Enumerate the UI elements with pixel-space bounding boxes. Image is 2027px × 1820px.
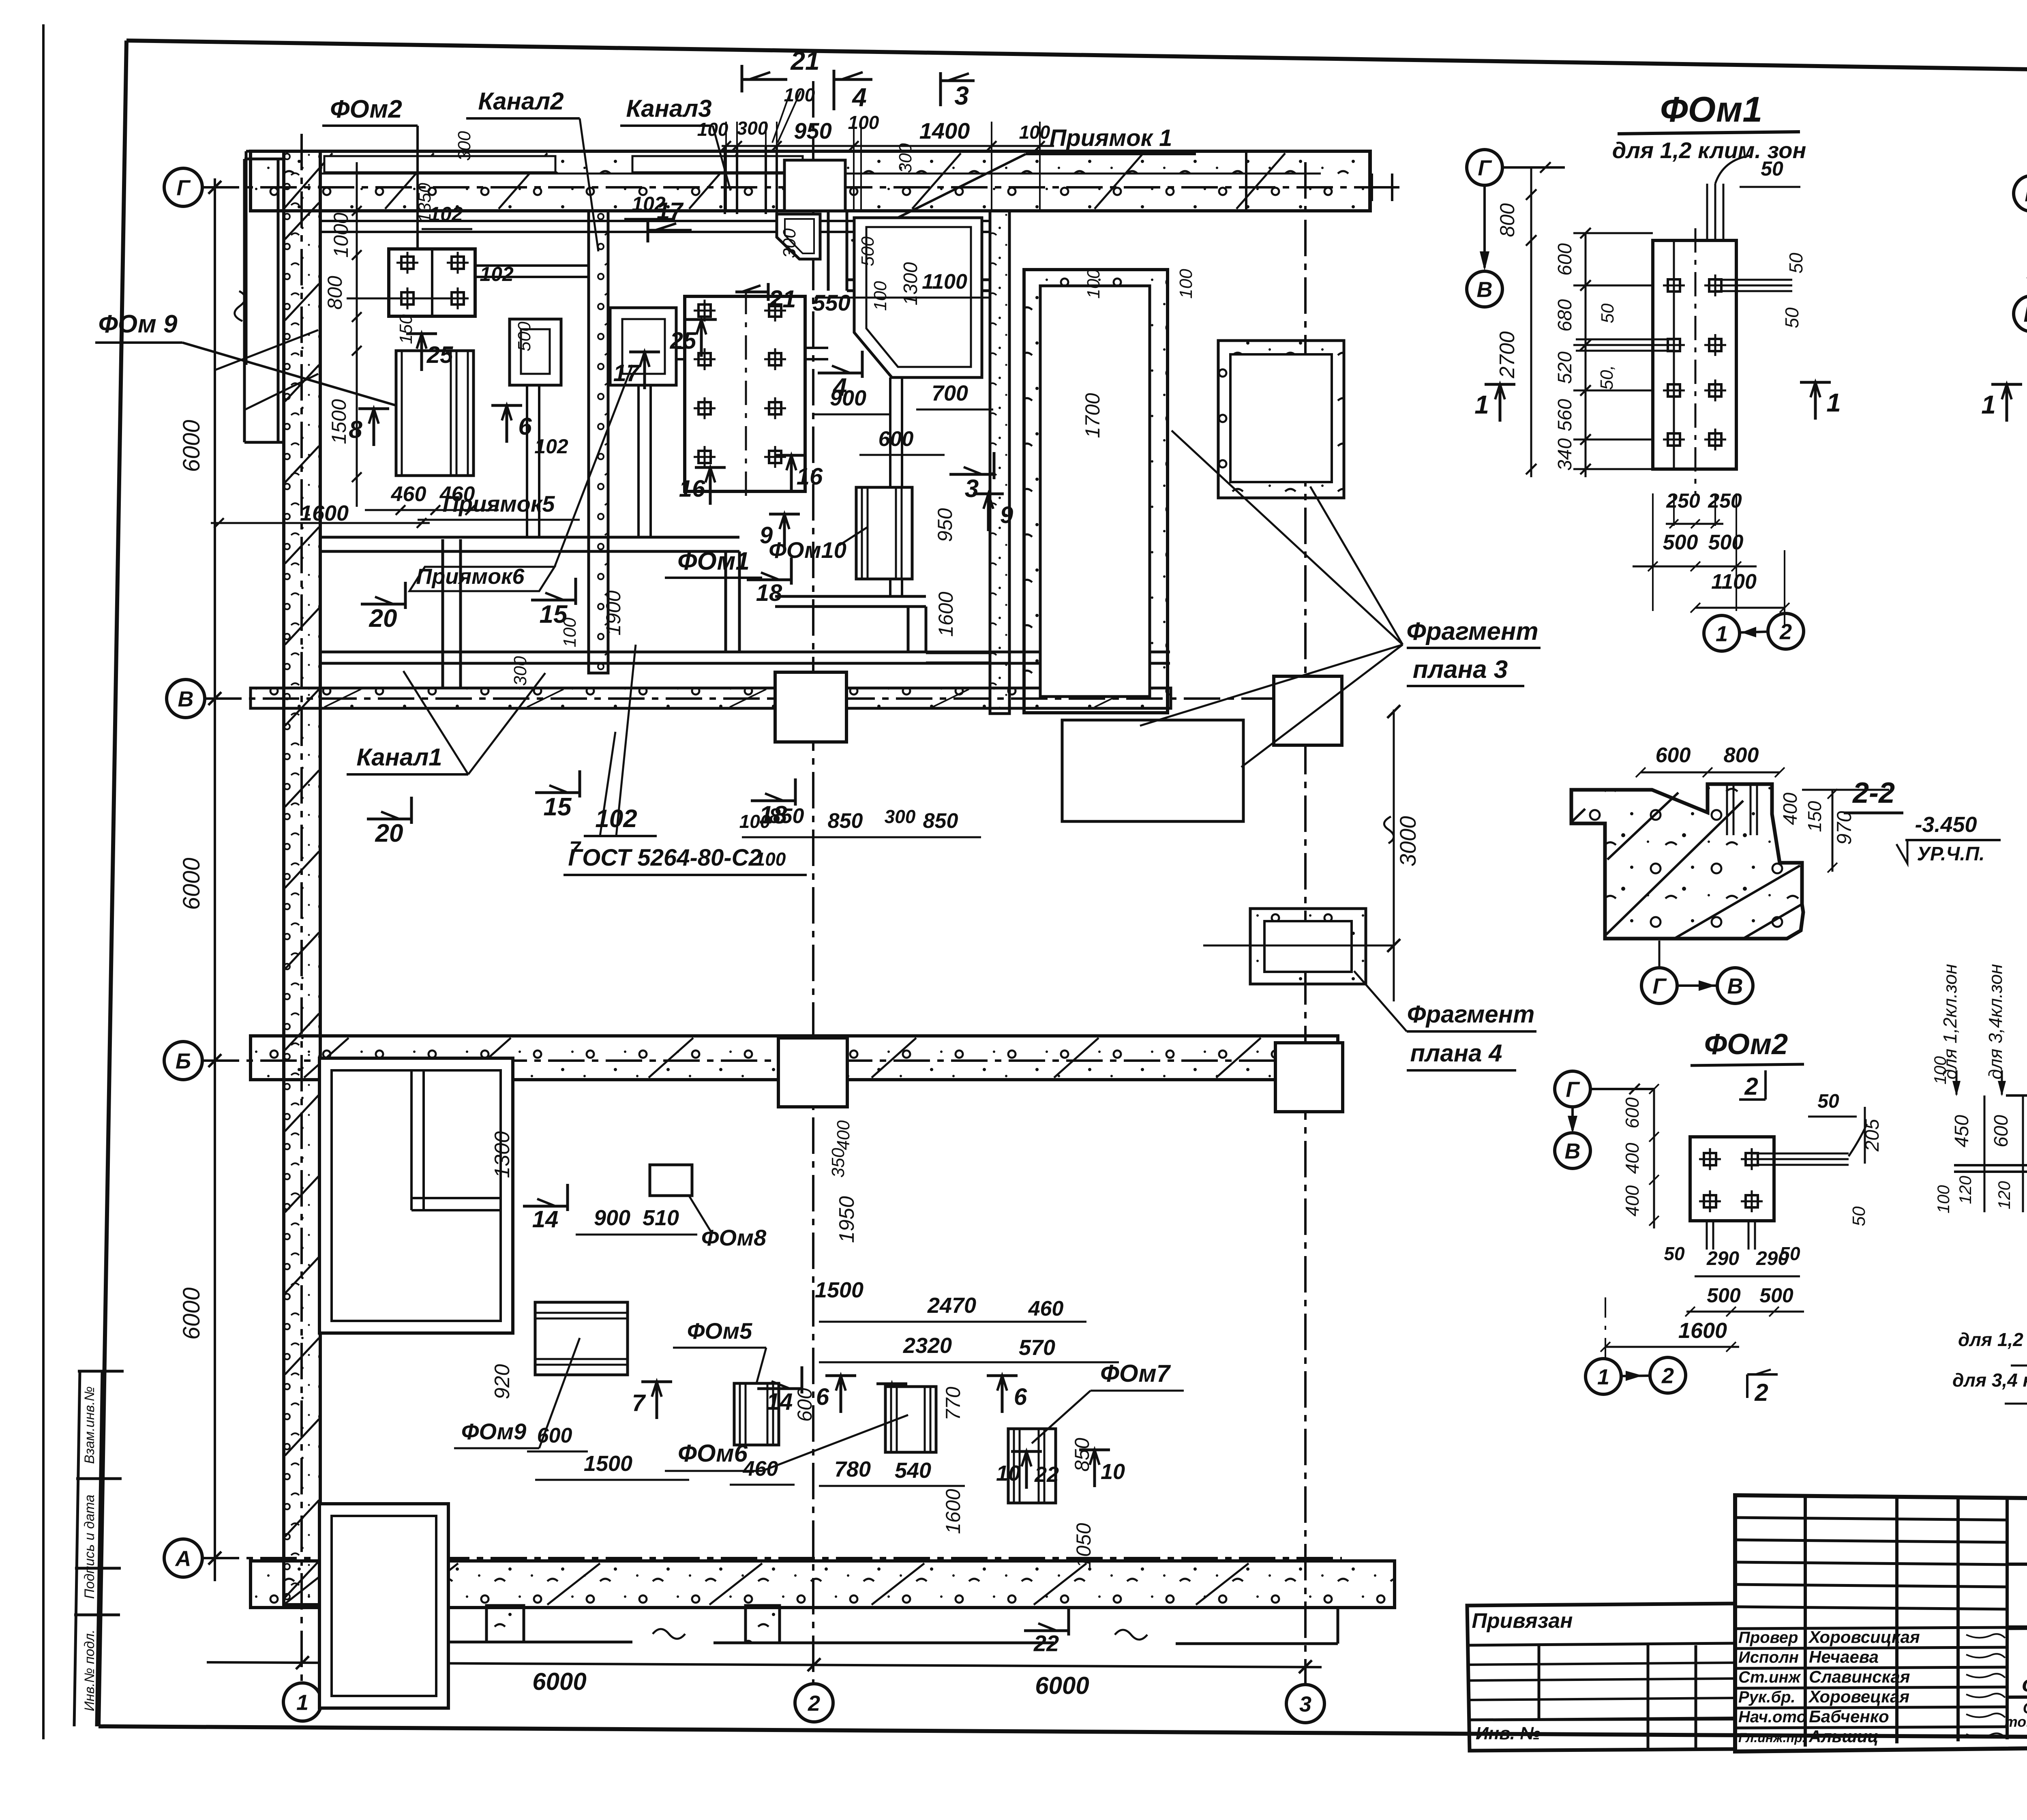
svg-text:плана 3: плана 3 xyxy=(1413,656,1508,684)
svg-text:850: 850 xyxy=(1071,1438,1093,1472)
svg-text:100: 100 xyxy=(1084,269,1103,299)
Приямок5 pit xyxy=(510,319,561,385)
svg-text:600: 600 xyxy=(1991,1115,2012,1147)
wall along axis Б (concrete band) xyxy=(251,1036,1338,1080)
svg-text:300: 300 xyxy=(780,228,799,258)
ФОм8 small rect xyxy=(650,1165,692,1196)
svg-text:Фрагмент: Фрагмент xyxy=(1406,617,1538,645)
ФОм7 bar xyxy=(1008,1429,1056,1503)
svg-text:600: 600 xyxy=(1656,744,1691,767)
svg-text:400: 400 xyxy=(1780,793,1801,825)
detail2 axis circles xyxy=(2014,176,2027,211)
svg-text:А: А xyxy=(175,1546,191,1571)
svg-text:22: 22 xyxy=(1034,1462,1059,1487)
svg-text:16: 16 xyxy=(797,463,823,490)
axis line Б xyxy=(203,1059,1342,1062)
axis line 3 xyxy=(1304,162,1307,1685)
svg-text:6000: 6000 xyxy=(1035,1672,1089,1699)
bottom dimension line 6000 chain xyxy=(207,1662,1322,1667)
svg-text:460: 460 xyxy=(439,482,475,506)
svg-text:600: 600 xyxy=(879,427,914,451)
svg-text:1600: 1600 xyxy=(1678,1318,1727,1343)
svg-text:1: 1 xyxy=(1474,390,1489,419)
svg-text:1000: 1000 xyxy=(330,212,352,257)
markers inside plan xyxy=(349,409,389,446)
svg-text:510: 510 xyxy=(643,1206,679,1230)
svg-text:1: 1 xyxy=(1826,388,1841,417)
svg-text:2: 2 xyxy=(808,1691,820,1715)
jog walls near 2280 xyxy=(775,595,926,598)
svg-text:ФОм1: ФОм1 xyxy=(1660,89,1762,129)
axis line 1 xyxy=(300,134,303,1683)
svg-text:6: 6 xyxy=(518,413,532,440)
svg-text:3000: 3000 xyxy=(1395,816,1421,867)
ФОм2 block xyxy=(389,249,475,316)
svg-text:100: 100 xyxy=(1019,122,1050,143)
svg-text:В: В xyxy=(1565,1139,1581,1163)
marker 4 inner xyxy=(818,351,862,401)
room below В left of axis3 xyxy=(1062,720,1243,821)
svg-text:300: 300 xyxy=(885,806,916,827)
svg-text:50: 50 xyxy=(1761,157,1783,180)
svg-text:570: 570 xyxy=(1019,1336,1055,1360)
pier bump 1 xyxy=(486,1606,524,1642)
svg-text:Нач.ото: Нач.ото xyxy=(1738,1708,1806,1726)
axis circle Г xyxy=(164,168,202,206)
wall Г inner beam line xyxy=(320,173,1321,175)
svg-text:1600: 1600 xyxy=(300,501,349,525)
svg-text:100: 100 xyxy=(755,849,786,870)
svg-text:50: 50 xyxy=(1817,1091,1839,1112)
pier axis2/В xyxy=(775,672,846,742)
svg-text:102: 102 xyxy=(534,435,568,458)
svg-text:600: 600 xyxy=(1554,243,1576,276)
dim row top (950/1400) xyxy=(722,145,1054,147)
svg-text:плана 4: плана 4 xyxy=(1410,1040,1502,1067)
svg-text:120: 120 xyxy=(1956,1175,1975,1204)
svg-text:1500: 1500 xyxy=(328,399,350,444)
svg-text:50: 50 xyxy=(1664,1243,1685,1264)
svg-text:6000: 6000 xyxy=(532,1668,586,1695)
channel pair pitB to east wall xyxy=(676,347,828,349)
rooms lower left xyxy=(319,1058,513,1333)
svg-text:800: 800 xyxy=(1496,203,1519,237)
fragment3 leader fan xyxy=(1172,431,1403,645)
svg-text:6: 6 xyxy=(1014,1384,1027,1410)
Приямок1 big pit xyxy=(1024,270,1168,713)
svg-text:300: 300 xyxy=(510,656,530,686)
svg-text:8: 8 xyxy=(349,416,362,443)
axis circle 1 xyxy=(283,1683,321,1721)
frame top border xyxy=(126,41,2027,76)
svg-text:17: 17 xyxy=(613,360,641,386)
svg-text:25: 25 xyxy=(670,328,696,354)
ФОм2 anchor wires down xyxy=(1706,1221,1708,1250)
svg-text:2470: 2470 xyxy=(927,1293,976,1318)
svg-text:1100: 1100 xyxy=(1711,570,1757,594)
svg-text:900: 900 xyxy=(594,1206,630,1230)
svg-text:ФОм2: ФОм2 xyxy=(330,95,402,123)
svg-text:500: 500 xyxy=(1663,531,1698,554)
svg-text:10: 10 xyxy=(996,1461,1020,1486)
svg-text:1: 1 xyxy=(296,1690,309,1715)
svg-text:500: 500 xyxy=(514,322,534,352)
markers 21 4 3 top xyxy=(742,65,787,92)
svg-text:100: 100 xyxy=(1931,1056,1950,1085)
svg-text:250: 250 xyxy=(1708,489,1742,512)
axis circle 3 xyxy=(1286,1685,1324,1723)
svg-text:Инв. №: Инв. № xyxy=(1476,1724,1541,1743)
svg-text:Канал1: Канал1 xyxy=(356,744,442,771)
svg-text:920: 920 xyxy=(491,1364,514,1400)
svg-text:14: 14 xyxy=(532,1206,559,1233)
personnel rows xyxy=(1735,1627,2007,1629)
room wall pair y1330 xyxy=(320,536,739,539)
ФОм9 upper bar xyxy=(396,351,474,476)
svg-text:290: 290 xyxy=(1706,1248,1739,1269)
svg-text:1: 1 xyxy=(1716,622,1728,646)
vertical dim ladder x=853 xyxy=(356,162,358,507)
ФОм2 anchor wires right xyxy=(1752,1153,1849,1155)
stamp column left edge xyxy=(74,1371,80,1726)
svg-text:1400: 1400 xyxy=(919,118,970,144)
lower foundation ledge under А wall xyxy=(345,1641,632,1644)
pit on axis 3 (fragment plan 3 target) xyxy=(1218,341,1344,498)
svg-text:550: 550 xyxy=(812,290,850,315)
svg-text:2: 2 xyxy=(1744,1073,1758,1100)
wall along axis Г (top, concrete) xyxy=(251,151,1370,211)
svg-text:290: 290 xyxy=(1756,1248,1789,1269)
svg-text:1950: 1950 xyxy=(835,1196,859,1243)
left dimension line 6000 chain xyxy=(214,178,216,1581)
ФОм2 plan rect xyxy=(1690,1137,1774,1221)
svg-text:Исполн: Исполн xyxy=(1738,1649,1799,1666)
frame bottom border xyxy=(99,1726,2027,1739)
svg-text:250: 250 xyxy=(1666,489,1700,512)
svg-text:770: 770 xyxy=(942,1387,964,1421)
axis line В xyxy=(205,697,1342,700)
2-2 pedestal bolts xyxy=(1727,784,1757,835)
svg-text:100: 100 xyxy=(848,112,879,133)
svg-text:100: 100 xyxy=(697,119,729,140)
svg-text:120: 120 xyxy=(1995,1181,2014,1209)
svg-text:Гл.инж.пр.: Гл.инж.пр. xyxy=(1738,1730,1806,1745)
svg-text:3: 3 xyxy=(965,475,979,503)
axis circle А xyxy=(164,1539,202,1577)
svg-text:14: 14 xyxy=(767,1389,793,1415)
svg-text:400: 400 xyxy=(834,1120,853,1150)
svg-text:600: 600 xyxy=(537,1424,572,1447)
svg-text:450: 450 xyxy=(1951,1115,1973,1147)
wall along axis А (bottom, concrete) xyxy=(251,1561,1395,1608)
svg-text:Хоровсицкая: Хоровсицкая xyxy=(1808,1627,1920,1646)
3-3 duct channel xyxy=(2006,1094,2027,1097)
svg-text:2: 2 xyxy=(1754,1379,1768,1406)
svg-text:2: 2 xyxy=(1779,620,1792,644)
svg-text:6000: 6000 xyxy=(178,857,205,910)
svg-text:Г: Г xyxy=(1652,974,1667,998)
svg-text:1100: 1100 xyxy=(922,270,967,294)
axis line А xyxy=(203,1557,1342,1559)
svg-text:Г: Г xyxy=(1478,156,1492,180)
paper edge line left xyxy=(42,24,45,1739)
marker 21 inner xyxy=(735,283,768,301)
svg-text:950: 950 xyxy=(934,508,956,542)
svg-text:400: 400 xyxy=(1622,1185,1643,1216)
svg-text:50,: 50, xyxy=(1597,365,1617,390)
left wall outer strip (wide top part) xyxy=(243,159,246,442)
svg-text:20: 20 xyxy=(369,605,397,632)
Канал3 channel walls vertical xyxy=(724,147,726,214)
svg-text:18: 18 xyxy=(756,580,782,606)
svg-text:отдельно стоящий.: отдельно стоящий. xyxy=(2022,1671,2027,1696)
svg-text:ФОм6: ФОм6 xyxy=(678,1440,748,1467)
svg-text:ФОм10: ФОм10 xyxy=(769,537,846,563)
svg-text:1300: 1300 xyxy=(491,1131,514,1178)
svg-text:1600: 1600 xyxy=(934,592,957,637)
svg-text:7: 7 xyxy=(632,1390,646,1416)
svg-text:800: 800 xyxy=(324,276,346,310)
svg-text:500: 500 xyxy=(1707,1284,1741,1307)
svg-text:102: 102 xyxy=(429,203,463,225)
title block vertical lines left grid xyxy=(1804,1496,1807,1747)
ФОм2 ladder xyxy=(1653,1089,1655,1228)
stamp column dividers xyxy=(78,1370,124,1373)
svg-text:2: 2 xyxy=(1661,1363,1674,1388)
svg-text:50: 50 xyxy=(1598,303,1618,323)
ФОм2 axis circles xyxy=(1555,1071,1590,1107)
svg-text:15: 15 xyxy=(544,793,572,821)
Канал3 vertical band xyxy=(990,211,1009,714)
svg-text:850: 850 xyxy=(769,804,804,828)
dim line 1600 left xyxy=(211,522,430,524)
dim 3000 vertical xyxy=(1393,710,1395,1001)
stamp column inner line xyxy=(96,1371,102,1726)
pier bump 2 xyxy=(746,1606,780,1643)
svg-text:В: В xyxy=(1477,277,1493,302)
svg-text:1500: 1500 xyxy=(584,1451,632,1476)
svg-text:25: 25 xyxy=(426,342,453,368)
svg-text:ФОм 9: ФОм 9 xyxy=(99,310,178,338)
svg-text:1500: 1500 xyxy=(815,1278,864,1302)
svg-text:Канал3: Канал3 xyxy=(626,95,711,122)
svg-text:Бабченко: Бабченко xyxy=(1809,1707,1889,1726)
frame left border xyxy=(99,41,126,1726)
svg-text:Приямок 1: Приямок 1 xyxy=(1050,125,1172,151)
svg-text:6: 6 xyxy=(816,1384,829,1410)
svg-text:100: 100 xyxy=(784,84,815,105)
svg-text:102: 102 xyxy=(480,263,514,285)
svg-text:500: 500 xyxy=(1759,1284,1793,1307)
svg-text:560: 560 xyxy=(1554,399,1576,431)
svg-text:2320: 2320 xyxy=(903,1333,952,1358)
svg-text:7: 7 xyxy=(569,837,581,860)
svg-text:1600: 1600 xyxy=(942,1489,964,1534)
svg-text:ГОСТ 5264-80-С2: ГОСТ 5264-80-С2 xyxy=(568,845,761,871)
svg-text:50: 50 xyxy=(1781,307,1802,328)
svg-text:340: 340 xyxy=(1554,438,1576,471)
svg-text:Г: Г xyxy=(176,176,191,200)
svg-text:780: 780 xyxy=(834,1457,871,1481)
svg-text:900: 900 xyxy=(830,386,866,410)
svg-text:для 3,4 кл.зон: для 3,4 кл.зон xyxy=(1952,1370,2027,1391)
axis line Г xyxy=(203,186,1354,189)
svg-text:680: 680 xyxy=(1554,299,1576,332)
svg-text:2-2: 2-2 xyxy=(1852,777,1895,809)
svg-text:для 3,4кл.зон: для 3,4кл.зон xyxy=(1985,964,2006,1080)
svg-text:Привязан: Привязан xyxy=(1472,1609,1573,1633)
svg-text:ФОм7: ФОм7 xyxy=(1100,1360,1171,1387)
svg-text:Б: Б xyxy=(176,1049,191,1073)
svg-text:2700: 2700 xyxy=(1496,331,1519,379)
svg-text:22: 22 xyxy=(1033,1630,1059,1656)
detail1 body xyxy=(1653,240,1736,469)
svg-text:600: 600 xyxy=(1622,1097,1643,1128)
svg-text:ФОм9: ФОм9 xyxy=(461,1419,527,1444)
svg-text:400: 400 xyxy=(1622,1143,1643,1174)
ФОм10 bar xyxy=(856,487,912,579)
svg-text:Г: Г xyxy=(1566,1077,1580,1102)
svg-text:ФОм2: ФОм2 xyxy=(1704,1028,1788,1061)
svg-text:9: 9 xyxy=(1000,502,1013,528)
svg-text:В: В xyxy=(178,687,194,711)
svg-text:4: 4 xyxy=(851,83,867,112)
corridor wall pair above В xyxy=(320,651,1170,654)
svg-text:460: 460 xyxy=(391,482,426,506)
svg-text:6000: 6000 xyxy=(178,420,205,472)
svg-text:300: 300 xyxy=(454,131,474,161)
svg-text:3: 3 xyxy=(1299,1692,1311,1716)
svg-text:17: 17 xyxy=(657,198,684,224)
svg-text:1700: 1700 xyxy=(1081,393,1104,438)
2-2 axis circles xyxy=(1641,968,1677,1003)
svg-text:100: 100 xyxy=(1934,1185,1953,1213)
axis circle 2 xyxy=(795,1684,833,1722)
svg-text:1: 1 xyxy=(1981,390,1996,419)
section marks 1 left/right of detail1 xyxy=(1474,384,1515,422)
svg-text:1: 1 xyxy=(1597,1365,1609,1389)
svg-text:Ст.инж: Ст.инж xyxy=(1738,1668,1802,1686)
strip foundation inner pair below top wall xyxy=(320,220,990,222)
svg-text:6000: 6000 xyxy=(178,1287,205,1340)
svg-text:16: 16 xyxy=(679,476,705,502)
wall pair x1790 xyxy=(724,551,727,652)
svg-text:Г: Г xyxy=(2025,182,2027,206)
pier axis2/Б xyxy=(778,1038,847,1107)
svg-text:ФОм1: ФОм1 xyxy=(677,547,750,575)
wall along axis 1 (left, concrete) xyxy=(284,151,320,1605)
left wall outer strip line xyxy=(245,151,248,365)
ФОм6 bar xyxy=(885,1387,936,1452)
Привязан table xyxy=(1467,1603,1735,1751)
svg-text:Альшиц: Альшиц xyxy=(1808,1727,1879,1746)
svg-text:Провер: Провер xyxy=(1738,1629,1798,1646)
channel pair ФОм2 to Канал2 xyxy=(475,264,589,267)
axis circle В xyxy=(167,680,205,718)
Приямок6 pit xyxy=(610,308,676,385)
svg-text:Взам.инв.№: Взам.инв.№ xyxy=(82,1386,97,1464)
svg-text:Инв.№ подл.: Инв.№ подл. xyxy=(82,1629,97,1711)
section 2-2 concrete mass xyxy=(1571,784,1803,939)
axis Г end break ticks xyxy=(1354,186,1399,189)
svg-text:Рук.бр.: Рук.бр. xyxy=(1738,1688,1796,1706)
svg-text:300: 300 xyxy=(737,118,768,139)
svg-text:21: 21 xyxy=(790,46,819,75)
marker 3 inner xyxy=(949,452,994,503)
svg-text:тов под оборудование,каналов,п: тов под оборудование,каналов,приям- xyxy=(2005,1713,2027,1730)
svg-text:ФОм5: ФОм5 xyxy=(687,1318,752,1344)
pier axis3/Б xyxy=(1275,1043,1343,1112)
svg-text:В: В xyxy=(2024,302,2027,326)
svg-text:150: 150 xyxy=(1804,801,1825,832)
svg-text:20: 20 xyxy=(375,819,403,847)
svg-text:Хоровецкая: Хоровецкая xyxy=(1808,1687,1909,1706)
column on axis 2 in top wall xyxy=(784,160,845,211)
svg-text:150: 150 xyxy=(396,314,416,344)
svg-text:-3.450: -3.450 xyxy=(1915,812,1977,837)
wall band on axis В xyxy=(251,688,1171,708)
svg-text:350: 350 xyxy=(828,1148,848,1178)
axis circle Б xyxy=(164,1042,202,1080)
svg-text:1900: 1900 xyxy=(602,590,625,635)
svg-text:Славинская: Славинская xyxy=(1809,1667,1910,1686)
svg-text:15: 15 xyxy=(540,600,568,628)
channel below pit B xyxy=(637,385,640,537)
channel pair right of pits xyxy=(827,210,830,291)
svg-text:520: 520 xyxy=(1554,352,1576,384)
svg-text:460: 460 xyxy=(1028,1297,1064,1321)
svg-text:300: 300 xyxy=(896,143,915,173)
svg-text:Нечаева: Нечаева xyxy=(1809,1647,1879,1666)
ФОм1 block in plan xyxy=(685,296,805,491)
svg-text:50: 50 xyxy=(1785,253,1806,274)
detail1 axis circles xyxy=(1467,150,1502,185)
svg-text:В: В xyxy=(1727,974,1743,998)
svg-text:970: 970 xyxy=(1833,811,1856,845)
svg-text:Канал2: Канал2 xyxy=(478,88,564,115)
svg-text:1300: 1300 xyxy=(900,262,921,305)
svg-text:850: 850 xyxy=(828,809,863,833)
svg-text:Приямок6: Приямок6 xyxy=(416,564,525,589)
left grid horizontal rows xyxy=(1735,1518,2007,1520)
duct box with chamfer xyxy=(777,214,820,259)
ФОм9 lower bar xyxy=(535,1302,628,1375)
svg-text:100: 100 xyxy=(1176,269,1196,299)
svg-text:21: 21 xyxy=(769,285,796,313)
top band line under ТП xyxy=(2007,1563,2027,1566)
room lower small xyxy=(319,1504,448,1708)
pier axis3/В xyxy=(1274,676,1342,745)
svg-text:540: 540 xyxy=(895,1458,931,1483)
ФОм2 circles 1 2 xyxy=(1586,1359,1621,1394)
svg-text:600: 600 xyxy=(793,1388,816,1422)
svg-text:50: 50 xyxy=(1849,1206,1869,1226)
svg-text:1050: 1050 xyxy=(1072,1523,1095,1568)
svg-text:500: 500 xyxy=(1708,531,1744,554)
pentagon pit top xyxy=(854,218,982,377)
title block outer xyxy=(1735,1495,2027,1751)
svg-text:10: 10 xyxy=(1101,1460,1125,1484)
svg-text:УР.Ч.П.: УР.Ч.П. xyxy=(1917,843,1984,865)
svg-text:460: 460 xyxy=(743,1457,778,1481)
svg-text:700: 700 xyxy=(932,381,968,405)
svg-text:850: 850 xyxy=(923,809,958,833)
top wall inner white strip xyxy=(324,156,555,172)
pit fragment plan 4 xyxy=(1250,909,1366,984)
Канал2 vertical band xyxy=(589,211,608,673)
svg-text:500: 500 xyxy=(858,236,878,266)
svg-text:3: 3 xyxy=(954,81,969,110)
